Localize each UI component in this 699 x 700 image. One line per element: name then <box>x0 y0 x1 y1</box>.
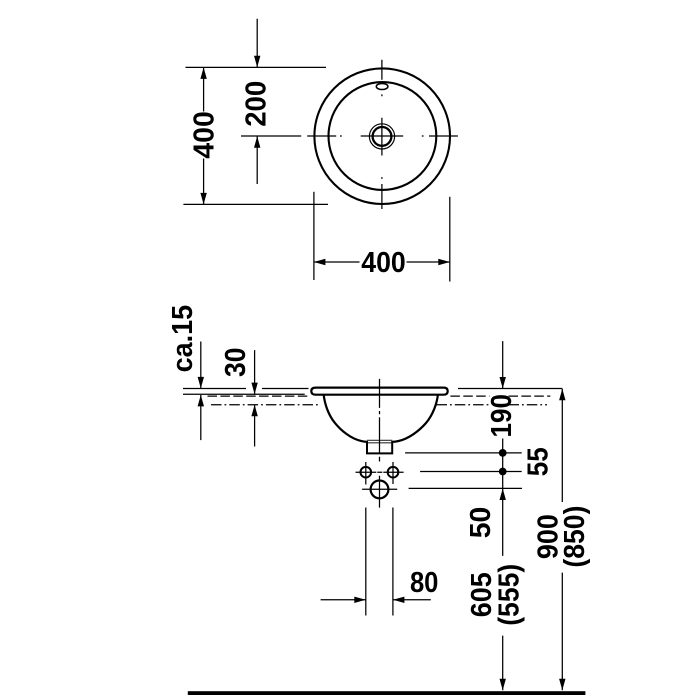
left fixing hole vertical tick <box>365 462 367 485</box>
arrowhead right 80 <box>354 597 366 603</box>
arrowhead right 400 horizontal <box>438 259 450 265</box>
arrowhead down ca.15 <box>198 377 204 389</box>
dimension chain line 190-55-50 <box>502 341 504 690</box>
basin outer rim circle (top view) <box>314 68 450 204</box>
svg-text:200: 200 <box>240 81 272 127</box>
side view vertical centerline <box>379 379 381 508</box>
svg-text:80: 80 <box>410 567 439 599</box>
arrowhead up 900 <box>559 389 565 401</box>
right fixing hole <box>388 467 399 478</box>
arrowhead down 200 <box>254 56 260 67</box>
countertop top line (side view) <box>183 388 562 390</box>
arrowhead up 50 <box>500 489 506 501</box>
arrowhead left 80 <box>393 597 405 603</box>
drain inner ring <box>373 127 392 146</box>
fixing holes horizontal ticks <box>356 471 404 473</box>
svg-text:ca.15: ca.15 <box>167 305 199 373</box>
svg-text:400: 400 <box>361 247 406 279</box>
extension line C waste hole <box>409 487 522 489</box>
waste outlet hole <box>371 481 389 499</box>
extension line A drain bottom <box>405 452 522 454</box>
dimension line 900-850 <box>561 389 563 691</box>
extension line right for 80 <box>392 508 394 616</box>
extension line right for 400 horizontal <box>449 197 451 282</box>
dimension line 80 <box>321 599 431 601</box>
extension line left for 400 horizontal <box>313 192 315 280</box>
left fixing hole <box>361 467 372 478</box>
overflow hole ellipse <box>376 83 388 89</box>
extension line left for 80 <box>365 508 367 616</box>
drain outer ring <box>369 124 394 149</box>
basin inner bowl edge circle (top view) <box>329 82 437 190</box>
arrowhead down 30 <box>251 383 257 395</box>
floor line <box>188 691 586 695</box>
dimension line 400 horizontal <box>314 261 450 263</box>
extension line B fixing holes <box>420 471 522 473</box>
arrowhead down 400 vertical <box>200 193 206 205</box>
svg-text:50: 50 <box>465 507 497 539</box>
dimension line 200 <box>256 19 258 184</box>
svg-text:(555): (555) <box>493 564 525 626</box>
basin rim profile (side view) <box>311 388 447 395</box>
dimension line 400 vertical <box>203 67 205 204</box>
svg-text:400: 400 <box>189 111 221 159</box>
horizontal centerline (top view) <box>241 135 458 137</box>
right fixing hole vertical tick <box>392 462 394 484</box>
arrowhead left 400 horizontal <box>314 259 326 265</box>
dimension ca.15 line <box>200 342 202 441</box>
drain flange lines <box>367 440 392 443</box>
countertop bottom line (side view) <box>183 393 305 395</box>
svg-text:(850): (850) <box>559 506 591 568</box>
arrowhead down 900 <box>559 679 565 691</box>
arrowhead down 605 <box>500 679 506 691</box>
basin bowl outline left wall <box>324 395 367 442</box>
vertical centerline (top view) <box>381 60 383 209</box>
dimension dot at drain bottom <box>499 449 507 457</box>
arrowhead up 400 vertical <box>200 67 206 79</box>
extension line at basin bottom <box>183 203 328 205</box>
arrowhead down 190 <box>500 377 506 389</box>
dimension 30 line <box>254 350 256 446</box>
drain tailpiece box <box>367 441 392 453</box>
extension line at basin top <box>186 66 327 68</box>
arrowhead up ca.15 <box>198 395 204 407</box>
svg-text:190: 190 <box>486 394 518 438</box>
arrowhead up 30 <box>251 405 257 417</box>
mounting dash-dot line <box>211 404 547 406</box>
hidden rim dashed line <box>208 395 551 397</box>
basin bowl outline right wall <box>392 395 438 442</box>
svg-text:30: 30 <box>220 347 252 377</box>
svg-text:55: 55 <box>523 447 555 476</box>
arrowhead up 200 <box>254 136 260 148</box>
dimension dot at fixing holes <box>499 468 507 476</box>
waste hole horizontal tick <box>362 488 397 490</box>
